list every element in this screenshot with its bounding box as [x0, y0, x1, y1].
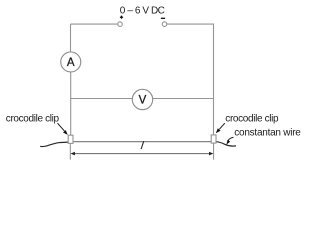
- leader arrow to right clip: [216, 123, 225, 133]
- label "crocodile clip" right: [225, 113, 279, 124]
- svg-text:crocodile clip: crocodile clip: [225, 113, 279, 124]
- svg-text:crocodile clip: crocodile clip: [6, 113, 60, 124]
- wire left vertical (ammeter down to left clip): [70, 72, 72, 135]
- svg-text:V: V: [139, 95, 147, 107]
- crocodile clip left (square): [68, 135, 73, 143]
- label "crocodile clip" left: [6, 113, 60, 124]
- svg-text:0 – 6 V DC: 0 – 6 V DC: [120, 6, 165, 17]
- constantan wire tail right: [216, 142, 236, 146]
- dimension extent line left: [69, 144, 71, 160]
- wire from - terminal to top-right corner and right vertical down to clip: [167, 24, 214, 135]
- label "constantan wire": [234, 127, 301, 138]
- wire voltmeter branch (horizontal): [71, 98, 214, 100]
- curved leader arrow to constantan wire: [226, 137, 233, 144]
- crocodile clip right (square): [211, 135, 216, 143]
- dimension extent line right: [213, 144, 215, 160]
- constantan wire (horizontal test wire between clips): [73, 141, 211, 143]
- svg-text:A: A: [67, 57, 75, 69]
- negative terminal -: [161, 18, 167, 26]
- positive terminal +: [118, 16, 123, 27]
- dimension line (double arrow): [71, 152, 214, 156]
- label 0 - 6 V DC (power supply rating): [120, 6, 165, 17]
- wire left vertical (corner down to ammeter): [70, 24, 72, 52]
- constantan wire tail left: [40, 142, 68, 146]
- leader arrow to left clip: [58, 123, 68, 135]
- svg-text:constantan wire: constantan wire: [234, 127, 301, 138]
- wire from + terminal to top-left corner: [71, 23, 118, 25]
- voltmeter V: [132, 89, 152, 109]
- label l (length of wire, italic): [140, 140, 145, 152]
- ammeter A: [61, 52, 81, 72]
